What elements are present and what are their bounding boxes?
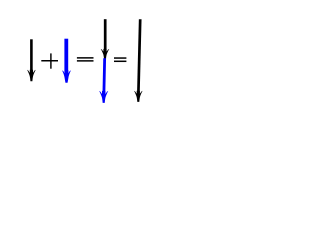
vector addition diagram (0, 0, 170, 122)
arrow A+B: right black resultant vector (134, 19, 143, 102)
equals sign 1 (77, 58, 94, 61)
plus sign (41, 53, 58, 68)
arrow B part of middle composite vector (blue) (99, 58, 108, 103)
equals sign 2 (114, 58, 126, 61)
arrow A part of middle composite vector (black) (101, 19, 110, 59)
arrow B: blue vector (62, 39, 71, 83)
arrow A: left black vector (27, 39, 36, 81)
